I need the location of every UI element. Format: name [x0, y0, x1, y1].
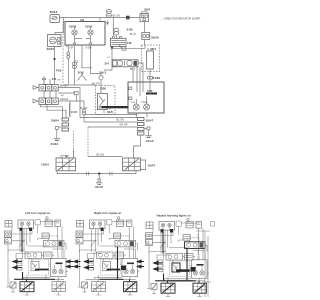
- svg-text:BL-GN: BL-GN: [60, 85, 68, 88]
- svg-text:30/94: 30/94: [51, 118, 59, 122]
- svg-text:S-GR: S-GR: [86, 47, 92, 50]
- svg-text:31/8: 31/8: [127, 27, 133, 31]
- svg-text:3/1: 3/1: [80, 18, 85, 22]
- svg-text:3/36: 3/36: [100, 86, 106, 90]
- svg-text:BL-GN: BL-GN: [113, 15, 121, 18]
- svg-text:Right turn signal on: Right turn signal on: [94, 211, 122, 215]
- svg-text:30/15: 30/15: [47, 47, 55, 51]
- svg-text:C1: C1: [75, 59, 79, 63]
- svg-text:30/47: 30/47: [146, 119, 154, 123]
- svg-text:: DIRECTION INDICATOR SCRIPT: : DIRECTION INDICATOR SCRIPT: [163, 18, 201, 21]
- svg-text:BL-R: BL-R: [130, 33, 136, 36]
- svg-text:GR: GR: [70, 47, 74, 50]
- svg-text:GR: GR: [61, 95, 65, 97]
- svg-text:GN: GN: [58, 80, 62, 82]
- svg-text:10/54: 10/54: [41, 162, 49, 166]
- svg-text:31/13: 31/13: [95, 185, 103, 189]
- svg-text:31/80: 31/80: [153, 76, 161, 80]
- svg-text:GR: GR: [65, 155, 69, 158]
- svg-text:15/2: 15/2: [147, 89, 153, 93]
- svg-text:3/13: 3/13: [78, 71, 84, 75]
- svg-text:GN-GR: GN-GR: [92, 82, 100, 85]
- svg-text:3/9-3: 3/9-3: [99, 70, 106, 74]
- svg-text:30/13: 30/13: [50, 10, 58, 14]
- svg-text:3/4: 3/4: [105, 61, 110, 65]
- svg-text:2:6: 2:6: [52, 77, 57, 81]
- svg-text:31/12: 31/12: [146, 139, 154, 143]
- svg-text:31/13: 31/13: [51, 142, 59, 146]
- svg-text:BL-GN: BL-GN: [117, 118, 125, 121]
- svg-text:BL-Y: BL-Y: [130, 68, 136, 71]
- svg-text:3:1: 3:1: [42, 77, 47, 81]
- svg-text:Hazard warning lights on: Hazard warning lights on: [157, 213, 192, 217]
- svg-text:30/4: 30/4: [144, 8, 150, 12]
- svg-text:15/1: 15/1: [150, 47, 156, 51]
- svg-text:30/16: 30/16: [151, 36, 159, 40]
- svg-text:1/8: 1/8: [127, 41, 132, 45]
- svg-text:BL-GN: BL-GN: [80, 107, 88, 110]
- svg-text:74/2: 74/2: [56, 69, 62, 73]
- svg-text:C10: C10: [71, 110, 77, 114]
- svg-text:GR-GN: GR-GN: [60, 98, 68, 101]
- svg-text:16/98: 16/98: [69, 24, 77, 28]
- svg-text:BL-GN: BL-GN: [97, 154, 105, 157]
- svg-text:16/94: 16/94: [85, 24, 93, 28]
- svg-text:31/5: 31/5: [107, 110, 113, 114]
- svg-text:10/47: 10/47: [148, 163, 156, 167]
- svg-text:.·.: .·.: [161, 17, 164, 21]
- svg-text:Left turn signal on: Left turn signal on: [25, 211, 50, 215]
- svg-text:GN-GR: GN-GR: [120, 123, 128, 126]
